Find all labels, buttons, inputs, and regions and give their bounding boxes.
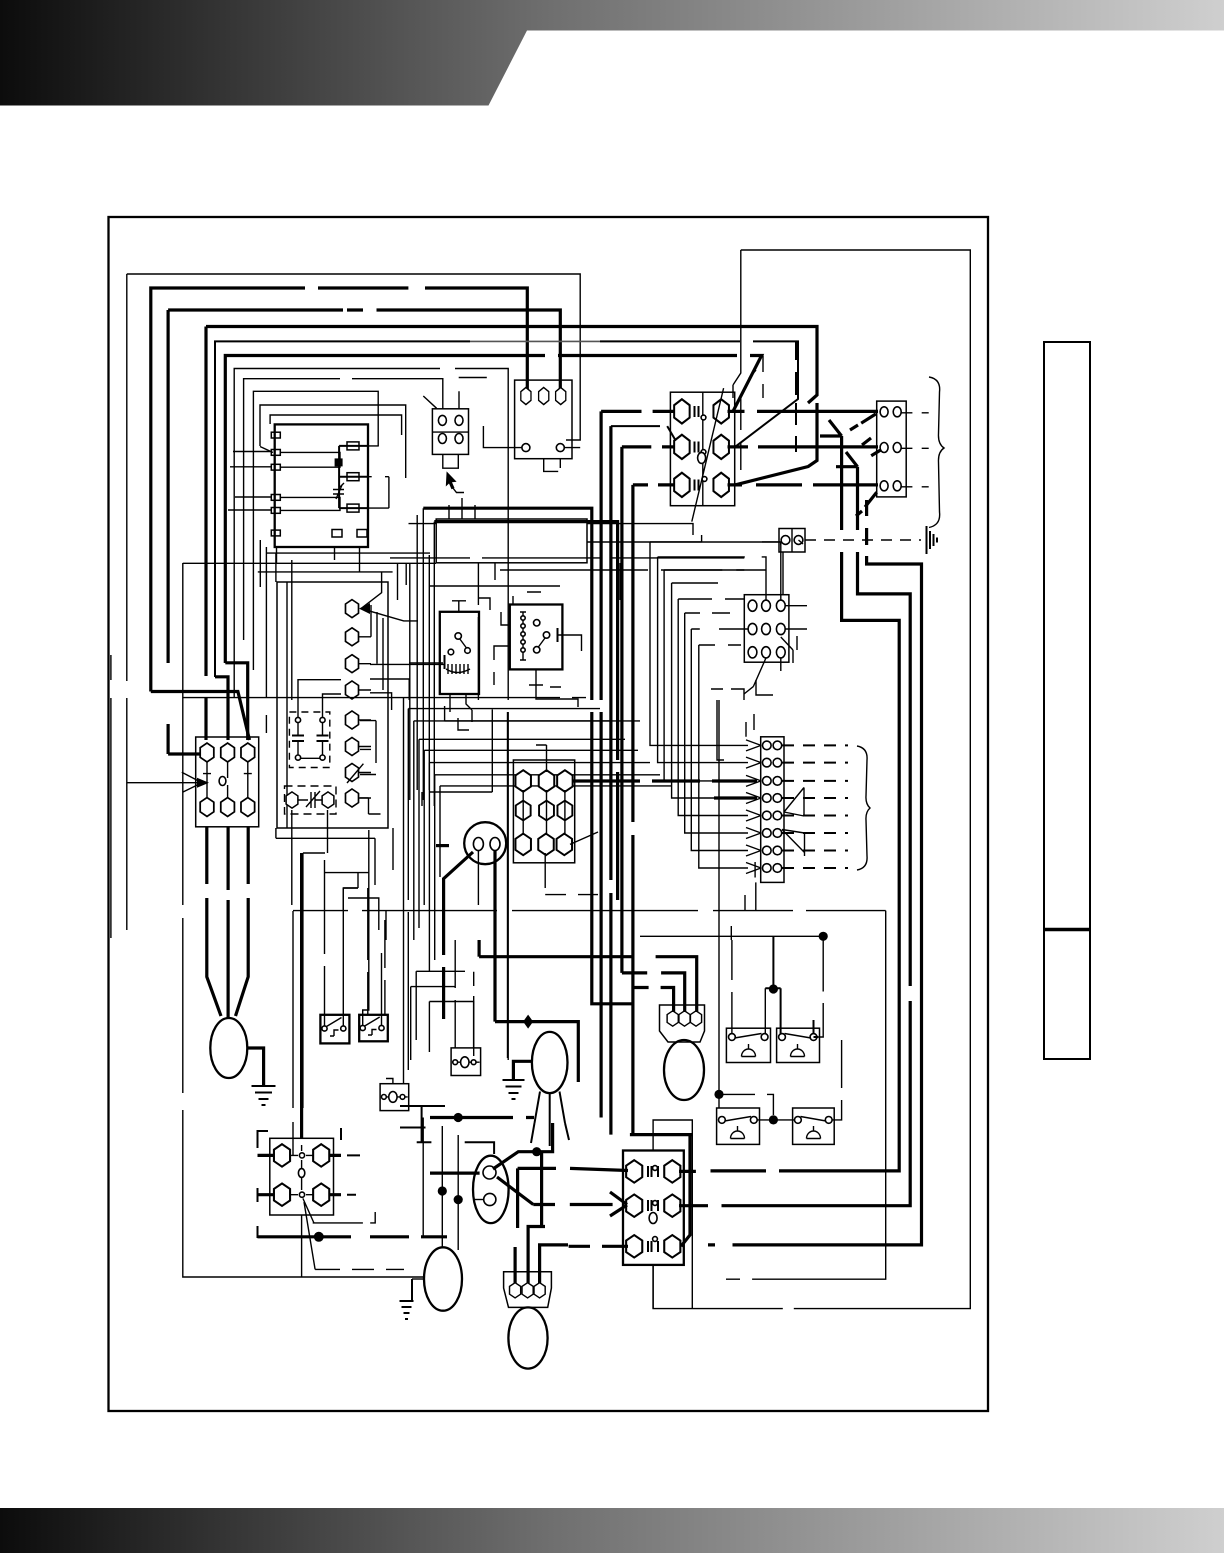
TB4 outputs to TB5 row2	[728, 445, 879, 448]
OG connector	[779, 529, 805, 553]
IC1 inner column	[339, 446, 368, 508]
TB7 fan wire 1	[650, 542, 748, 746]
junction bus y1021.6	[495, 1022, 578, 1082]
terminal block TB6	[744, 595, 789, 663]
IC1 underline wire	[267, 552, 430, 554]
LS2 disc	[791, 1044, 805, 1057]
TB9 center contacts	[648, 1166, 658, 1252]
K1 contact blade	[460, 639, 467, 649]
T8 diag run1	[313, 1212, 376, 1223]
module bottom stubs	[260, 540, 359, 733]
TB4 mid ellipse	[698, 452, 706, 463]
BP feeds	[515, 1152, 568, 1283]
TB4 contact rings	[701, 415, 707, 481]
T3 drop wire 3	[236, 827, 249, 1016]
T8 lower diagonals	[303, 1198, 315, 1269]
crimp mark row1	[850, 414, 876, 430]
heavy rail x591.8	[423, 508, 592, 957]
arrow to hex pin 1	[361, 572, 418, 621]
LS4 right lead	[832, 1040, 842, 1120]
OG circles	[781, 536, 803, 545]
K1 top bracket	[479, 598, 490, 610]
TB9 right thick rail	[681, 1135, 690, 1247]
OG divider	[791, 529, 793, 553]
LS3-LS4 link	[757, 1119, 794, 1121]
K2 bottom terminal	[529, 669, 578, 707]
LS4 disc	[807, 1126, 821, 1139]
igniter feed rails	[423, 1118, 458, 1251]
riser x478	[477, 563, 479, 700]
TB6 bottom brackets	[756, 636, 797, 695]
S2 lead left	[358, 873, 369, 1026]
long run y910.6	[293, 910, 886, 912]
ground G3 sideways	[927, 526, 938, 554]
wire K top run	[270, 415, 402, 435]
TB7 lead arrowheads	[746, 740, 761, 874]
wire D lower diagonal to TB4	[735, 403, 817, 485]
wire C top run	[168, 310, 560, 754]
T1 pin circle 5	[556, 444, 564, 452]
IC1 right exit stubs	[368, 446, 389, 508]
bundle drop 601	[599, 411, 602, 1117]
T8 mid ellipse	[298, 1169, 304, 1178]
BP hexes	[510, 1283, 546, 1298]
junction dot y1117	[454, 1113, 463, 1122]
K2 right terminal	[557, 628, 559, 642]
J5 contacts	[381, 1096, 408, 1098]
junction dot bus	[314, 1232, 324, 1242]
M2 ground link	[513, 1061, 532, 1079]
run capacitor RC	[473, 1156, 509, 1223]
junction diamond	[523, 1015, 533, 1029]
T3 hex row1	[200, 743, 254, 762]
limit switch LS4	[793, 1108, 835, 1144]
TB9 hexes	[626, 1160, 680, 1257]
TB7 fan wire 6	[685, 613, 748, 833]
TB7 fan wire 7	[691, 629, 748, 851]
heavy bus y956.7	[479, 957, 697, 1012]
RC upper diagonal	[493, 1123, 553, 1169]
TB4 crossing diagonal	[692, 388, 724, 521]
KR internal stubs	[298, 723, 323, 755]
right wire R1 head	[820, 420, 842, 436]
run y586	[430, 585, 560, 587]
LS1 blade	[735, 1034, 762, 1039]
ground G4	[400, 1279, 414, 1319]
K1 left lead terminal	[444, 655, 446, 669]
wire I diagonal stub	[423, 391, 459, 409]
inducer plug IP	[660, 1005, 705, 1042]
relay area rails	[410, 508, 435, 806]
TB6 left lead	[719, 628, 748, 630]
capacitor box C1 dashed	[285, 786, 337, 814]
center bottom risers	[545, 863, 598, 895]
RC bottom circle stub	[474, 1199, 484, 1201]
IC1 spark gap	[333, 483, 344, 499]
riser x495	[494, 563, 496, 580]
sidebar box	[1044, 342, 1090, 1059]
fan drop rails left	[404, 698, 441, 1070]
S1 contacts	[322, 1026, 346, 1031]
big loop rect	[653, 250, 970, 1309]
hex block T2	[513, 760, 574, 863]
TB7 fan wire 3	[664, 570, 748, 781]
top right corner runs	[740, 398, 742, 470]
hex7 slash	[347, 764, 363, 783]
RC left feed	[430, 1171, 480, 1174]
footer banner	[0, 1508, 1224, 1553]
wire E jog to TB3	[215, 677, 228, 740]
wire B top run	[151, 288, 528, 692]
K2 lower bracket	[494, 672, 561, 687]
S2 blade	[365, 1017, 380, 1035]
TB7 bottom stub	[755, 882, 757, 910]
K2 contact blade	[538, 638, 545, 648]
K1 coil glyph	[446, 664, 470, 674]
cursor arrow at P2	[446, 471, 457, 489]
P2 circles	[438, 415, 463, 443]
T1 hex pin 3	[556, 387, 566, 404]
J4 top leads	[455, 940, 473, 1048]
M2 leg extensions	[531, 1123, 569, 1146]
blower plug BP	[504, 1272, 552, 1308]
toggle switch S2	[359, 1015, 388, 1042]
TB5 circles	[880, 407, 901, 491]
wire C to T3 row	[168, 752, 203, 755]
TB4 hexes	[674, 399, 729, 497]
left long rails below module	[276, 553, 292, 700]
inner left rail	[110, 655, 112, 938]
terminal strip T1	[515, 380, 572, 459]
TB9 frame	[653, 1120, 692, 1309]
hex column pin 7	[345, 764, 358, 782]
relay K2	[510, 605, 563, 670]
center risers to RC	[473, 1044, 475, 1056]
mid horizontal connectors	[411, 971, 474, 1060]
G4 stem	[412, 1278, 424, 1280]
K2 top bracket	[513, 592, 541, 605]
IC1 filled node	[335, 458, 343, 466]
junction dot ig1	[438, 1186, 447, 1195]
T2 top stub	[536, 745, 547, 772]
left mid verticals	[276, 810, 328, 1108]
junction dot ig2	[454, 1195, 463, 1204]
risers above LS1	[731, 895, 745, 940]
wire A top run (thin rect)	[127, 274, 580, 930]
limit switch LS1	[726, 1028, 770, 1062]
thin mid rails	[474, 712, 508, 1058]
run y570	[500, 569, 744, 571]
K1 bottom stubs	[450, 694, 472, 730]
TB6 lower L wire	[711, 689, 744, 760]
curly brace right of TB5	[929, 377, 944, 528]
KR contact circles	[295, 717, 325, 760]
terminal block TB5	[877, 401, 907, 497]
TB9 row2 right stub	[679, 1204, 700, 1207]
run y523.6	[409, 524, 694, 535]
dashed riser x763	[749, 356, 763, 399]
TB4 row2 left lead dashed	[611, 426, 676, 441]
hex column inner rail	[286, 582, 288, 828]
dashed run y1094	[723, 1094, 773, 1115]
TB7 fan wire 8	[699, 645, 748, 868]
RC lower diagonal dashed	[497, 1177, 613, 1205]
TB5 right stubs	[901, 413, 929, 487]
LS4 blade	[801, 1117, 827, 1122]
T1 hex pin 2	[539, 387, 549, 404]
K2 right lead	[558, 635, 582, 651]
bundle drop 633	[631, 485, 634, 1135]
bundle drop 622	[620, 447, 623, 973]
S2 contacts	[360, 1025, 384, 1030]
junction dot LS34	[769, 1115, 778, 1124]
LS3 blade	[725, 1117, 752, 1122]
crimp mark row3	[856, 492, 877, 516]
TB9 top thick feed	[630, 1133, 692, 1136]
TB9 row1 right stub	[679, 1170, 696, 1173]
T8 center contacts	[291, 1145, 313, 1195]
header banner	[0, 0, 1224, 106]
gas valve GV circle	[464, 822, 506, 864]
top link y1117	[430, 1116, 534, 1119]
IC1 inner pin squares	[347, 442, 359, 512]
left rail x719	[718, 700, 720, 1108]
T2 inner stubs	[523, 790, 565, 835]
T8 hexes	[274, 1144, 329, 1206]
GV inner left drop	[477, 851, 479, 906]
thick bus y1236.8	[258, 1235, 410, 1238]
T1 hex pin 1	[521, 387, 531, 404]
left mid horiz y838	[276, 838, 375, 885]
mid connector runs	[368, 828, 393, 1014]
motor M1	[210, 1018, 247, 1078]
relay area stubs	[370, 664, 640, 806]
T2 hexes row mid	[516, 801, 573, 821]
LS2 contacts	[779, 1034, 817, 1041]
igniter IG	[424, 1247, 462, 1310]
T1 circle4 lead	[483, 426, 522, 448]
arrow at TB7 upper	[784, 788, 804, 817]
relay K1	[440, 612, 479, 694]
diagram outer border	[109, 217, 989, 1411]
C1 hex left	[286, 792, 298, 808]
connector P2	[432, 409, 468, 455]
T2 hexes row1	[515, 770, 572, 792]
TB4 row3 left lead	[633, 483, 675, 486]
big loop left edge	[733, 250, 741, 398]
arrow at TB7 lower	[782, 830, 805, 857]
TB6 top feeds	[762, 542, 781, 600]
ignition control module IC1	[275, 424, 368, 547]
bottom dashes near T8	[347, 1155, 360, 1194]
RC terminal top	[483, 1166, 496, 1179]
strip feed verticals	[746, 714, 755, 878]
hex column pin 5	[345, 711, 358, 729]
mid horiz y872	[325, 873, 358, 888]
junction dot LS	[769, 984, 778, 993]
arrowhead at hex pin 1	[359, 603, 370, 614]
crimp mark row2	[862, 438, 881, 456]
igniter drop rail x293	[292, 911, 294, 1155]
curly brace right of TB7	[857, 746, 870, 870]
M1 ground lead	[247, 1048, 263, 1085]
T8 corner brackets	[258, 1128, 342, 1238]
cursor arrow tail	[453, 488, 465, 493]
K2 left bracket lead	[494, 612, 510, 660]
S2 lead right	[381, 953, 383, 1025]
TB9 contact rings	[653, 1166, 658, 1242]
ground G1	[252, 1086, 276, 1105]
IP hexes	[667, 1011, 701, 1026]
S1 blade	[327, 1018, 342, 1037]
link brackets y1126	[400, 1106, 494, 1154]
J5 top lead	[386, 706, 404, 1084]
right wire R4 thin	[726, 911, 886, 1280]
T3 mid contacts	[203, 762, 252, 797]
IC1 left pin squares	[271, 432, 280, 536]
KR capacitor plates left	[292, 736, 304, 742]
wire E thin mid segment	[470, 340, 600, 342]
junction dot y936	[819, 932, 828, 941]
wire E top run	[215, 341, 798, 677]
K2 coil text column	[520, 612, 526, 660]
T2 row1 out	[572, 779, 757, 782]
ground G2	[503, 1080, 525, 1099]
connector J5	[380, 1084, 409, 1111]
LS2 blade	[785, 1034, 812, 1039]
TB7 dashed outputs	[782, 745, 848, 868]
right wire R1	[711, 436, 900, 1171]
T8 right stubs	[330, 1155, 341, 1194]
GV diagonal drop	[444, 852, 473, 1019]
C1 hex right	[322, 792, 334, 808]
TB7 circles col1	[763, 741, 772, 872]
long rail x182.8	[183, 563, 424, 1277]
hex column riser wires	[371, 605, 383, 690]
run y563	[183, 563, 436, 600]
TB7 fan wire 5	[678, 599, 748, 816]
K1 contact circles	[448, 633, 470, 655]
T1 pin circle 4	[522, 444, 530, 452]
P2 divider	[432, 431, 468, 433]
hex column pin 4	[345, 681, 358, 699]
TB9 row3 feed dashed	[569, 1245, 628, 1248]
IC1 left entry wires	[228, 452, 271, 511]
limit switch LS3	[717, 1108, 760, 1144]
LS1 contacts	[729, 1034, 768, 1041]
run y571.9	[258, 563, 406, 585]
LS feeds	[732, 940, 765, 1034]
GV left stub	[436, 844, 449, 847]
junction run y936.3	[640, 936, 823, 1037]
dashed riser x796	[795, 341, 797, 452]
sidebar divider	[1044, 928, 1090, 931]
LS1 disc	[742, 1044, 756, 1057]
mid horiz y888	[343, 888, 386, 940]
S-area risers	[325, 860, 344, 911]
junction dot x719	[714, 1090, 723, 1099]
K1 left lead	[409, 662, 443, 664]
TB4 row contacts	[695, 406, 699, 491]
S1 lead left	[324, 905, 326, 1026]
C1 capacitor symbol	[298, 791, 322, 808]
LS3 contacts	[719, 1117, 758, 1124]
K2 contact circles	[534, 620, 550, 653]
hex column pin 3	[345, 655, 358, 673]
IC1 bottom pin squares	[332, 530, 367, 538]
TB9 row2 convergence	[610, 1192, 627, 1216]
OG dashed ground run	[805, 539, 921, 541]
LS4 contacts	[795, 1117, 833, 1124]
right wire R2	[700, 467, 910, 1206]
TB7 circles col2	[773, 741, 782, 872]
junction dot RC	[532, 1147, 541, 1156]
hex column stubs	[359, 637, 371, 798]
box3 risers	[449, 498, 620, 600]
TB7 fan wire 4	[672, 583, 748, 798]
terminal block T3	[196, 737, 259, 827]
run y542	[587, 542, 781, 545]
terminal block T8	[270, 1138, 334, 1215]
S1 lead right	[343, 888, 358, 1026]
hex column pin 1	[345, 600, 358, 618]
TB4 center rail	[702, 392, 704, 506]
KR top leads	[298, 680, 341, 718]
bottom-left thin L	[301, 1215, 303, 1277]
relay KR dashed box	[289, 712, 329, 768]
right wire R2 head	[836, 452, 858, 467]
fan top runs right	[650, 535, 766, 645]
TB9 row1 feed	[518, 1168, 628, 1228]
P2 bottom leads	[443, 454, 459, 468]
connector J4	[451, 1048, 481, 1076]
wire I top run	[253, 391, 378, 670]
bundle drop 611	[609, 426, 612, 1135]
T8 left stubs	[258, 1155, 274, 1194]
blower motor M4	[508, 1307, 547, 1368]
hex column enclosure	[277, 582, 388, 828]
T3 hex row2	[200, 798, 254, 817]
K1 top terminal	[452, 601, 466, 612]
T3 drop wire 2	[227, 827, 230, 1018]
GV right drop	[493, 851, 496, 1022]
terminal block TB4	[670, 392, 734, 506]
TB4 outputs to TB5 row1	[728, 410, 879, 413]
right wire R3	[708, 500, 922, 1245]
T8 diag run2 dashed	[315, 1268, 404, 1270]
wire J top run	[260, 405, 406, 478]
wire B to terminal jog	[151, 692, 250, 741]
blower motor M2	[532, 1032, 568, 1093]
pin strip TB7	[761, 737, 784, 883]
OG circle tail	[799, 540, 804, 544]
T2 row2 diagonal	[545, 832, 598, 863]
T3 drop wire 1	[207, 827, 221, 1016]
GV inner terminals	[473, 838, 500, 851]
TB7 fan wire 2	[658, 557, 748, 763]
thick stub into strip row4	[714, 796, 757, 799]
limit switch LS2	[777, 1028, 820, 1062]
toggle switch S1	[320, 1015, 349, 1044]
wire F jog to TB3	[225, 663, 247, 740]
terminal block TB9	[623, 1151, 684, 1265]
TB4 row1 left lead	[601, 410, 675, 413]
hex column pin 6	[345, 738, 358, 756]
wire F top run	[225, 356, 761, 664]
display window box	[436, 519, 587, 563]
TB4 outputs to TB5 row3	[728, 483, 879, 486]
LS junction drop	[765, 936, 818, 1037]
